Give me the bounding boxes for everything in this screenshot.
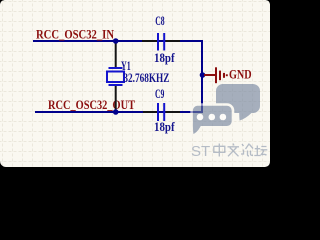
capacitor C9 left pin: [143, 111, 157, 113]
watermark bubble dots: [197, 114, 204, 121]
crystal Y1 symbol: [107, 68, 124, 85]
文: [228, 144, 240, 157]
capacitor C8 left pin: [142, 40, 157, 42]
junction at GND tap: [200, 72, 206, 78]
svg-text:C9: C9: [155, 87, 164, 101]
wire right vertical (caps to GND rail): [201, 40, 203, 112]
junction on RCC_OSC32_IN at crystal: [113, 38, 119, 44]
svg-text:18pf: 18pf: [154, 51, 175, 65]
watermark right bubble: [216, 84, 260, 121]
论: [241, 144, 253, 157]
power port GND: [204, 67, 227, 83]
grid (decorative): [0, 0, 270, 167]
svg-text:C8: C8: [155, 14, 164, 28]
capacitor C8 right pin: [166, 40, 181, 42]
rounded corner mask (decorative): [0, 0, 270, 167]
sheet background: [0, 0, 270, 167]
wire net RCC_OSC32_OUT (horizontal bottom): [35, 111, 203, 113]
crystal Y1 top pin: [115, 41, 117, 67]
svg-text:32.768KHZ: 32.768KHZ: [123, 71, 169, 85]
watermark logo and text: [191, 84, 267, 160]
中: [214, 144, 225, 157]
watermark left bubble: [192, 105, 233, 136]
junction on RCC_OSC32_OUT at crystal: [113, 109, 119, 115]
capacitor C9 plates: [158, 103, 164, 121]
svg-text:GND: GND: [229, 67, 252, 81]
svg-text:ST: ST: [191, 143, 210, 160]
capacitor C8 plates: [158, 33, 164, 51]
svg-text:RCC_OSC32_IN: RCC_OSC32_IN: [36, 27, 114, 42]
capacitor C9 right pin: [166, 111, 181, 113]
svg-text:18pf: 18pf: [154, 120, 175, 134]
wire net RCC_OSC32_IN (horizontal top): [33, 40, 202, 42]
crystal Y1 bottom pin: [115, 86, 117, 113]
svg-text:RCC_OSC32_OUT: RCC_OSC32_OUT: [48, 97, 135, 112]
坛: [254, 146, 267, 157]
watermark text CJK (drawn): [214, 144, 267, 157]
